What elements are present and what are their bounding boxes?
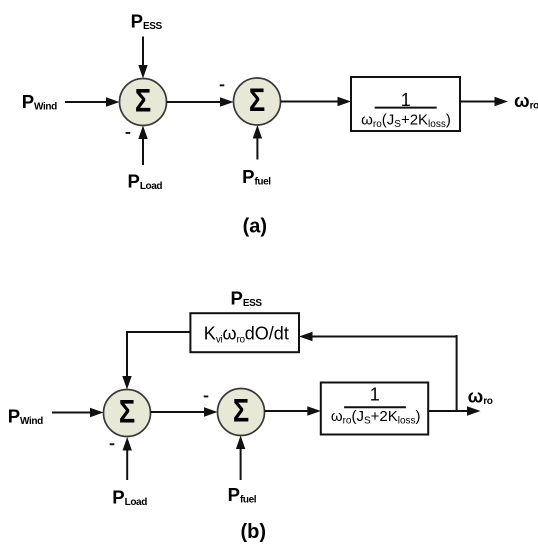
wire transfer block to output <box>460 97 508 106</box>
minus sign at S1b lower input <box>110 443 115 445</box>
svg-text:ωro: ωro <box>514 90 538 112</box>
svg-text:1: 1 <box>370 384 380 404</box>
caption (b) <box>241 521 267 543</box>
label P_Load (diagram a) <box>128 171 163 193</box>
wire feedback corner into K block (horizontal, arrow left) <box>299 332 457 341</box>
label P_ESS (diagram b) <box>231 288 263 310</box>
svg-text:Σ: Σ <box>233 393 249 429</box>
wire summer S2b to transfer block b <box>265 406 321 415</box>
label P_ESS (diagram a) <box>131 10 163 32</box>
wire output node up to feedback corner (vertical) <box>456 335 458 411</box>
label P_Wind (diagram a) <box>22 91 57 113</box>
label P_fuel (diagram b) <box>228 484 257 506</box>
wire summer S2 to transfer block <box>281 97 352 106</box>
wire P_fuel up into summer S2b <box>236 436 245 481</box>
label P_Wind (diagram b) <box>8 406 43 428</box>
svg-text:PESS: PESS <box>131 10 163 32</box>
svg-text:(a): (a) <box>243 215 267 237</box>
wire K block output to corner (horizontal) <box>126 331 190 333</box>
summing junction S1 <box>120 79 167 126</box>
transfer function block 1/(wro(Js+2Kloss)) diagram a <box>351 77 460 131</box>
svg-text:Pfuel: Pfuel <box>242 166 271 188</box>
minus sign at S2 left input <box>220 84 225 86</box>
wire P_Load up into summer S1b <box>123 437 132 480</box>
svg-text:(b): (b) <box>241 521 267 543</box>
wire P_Wind into summer S1b <box>52 408 104 417</box>
svg-text:Σ: Σ <box>249 83 265 119</box>
wire P_Load up into summer S1 <box>138 126 147 166</box>
summing junction S2 <box>234 78 281 125</box>
wire summer S1b to summer S2b <box>151 407 218 416</box>
svg-text:PLoad: PLoad <box>112 487 147 509</box>
svg-text:Σ: Σ <box>135 83 151 119</box>
block Kvi*wro*dO/dt (ESS controller) <box>190 313 299 352</box>
minus sign at S2b left input <box>204 396 209 398</box>
svg-text:PWind: PWind <box>8 406 43 428</box>
wire P_fuel up into summer S2 <box>253 125 262 160</box>
caption (a) <box>243 215 267 237</box>
label P_Load (diagram b) <box>112 487 147 509</box>
label omega_ro output (diagram b) <box>468 386 493 408</box>
label P_fuel (diagram a) <box>242 166 271 188</box>
svg-text:PWind: PWind <box>22 91 57 113</box>
svg-text:ωro: ωro <box>468 386 493 408</box>
minus sign at S1 lower input <box>126 132 131 134</box>
wire transfer block b to output <box>428 406 480 415</box>
wire P_ESS down into summer S1 <box>138 37 147 79</box>
transfer function block 1/(wro(Js+2Kloss)) diagram b <box>321 383 428 435</box>
summing junction S1b <box>104 390 151 437</box>
svg-text:PLoad: PLoad <box>128 171 163 193</box>
wire P_Wind into summer S1 <box>65 97 120 106</box>
label omega_ro output (diagram a) <box>514 90 538 112</box>
svg-text:PESS: PESS <box>231 288 263 310</box>
svg-text:Pfuel: Pfuel <box>228 484 257 506</box>
summing junction S2b <box>218 389 265 436</box>
wire summer S1 to summer S2 <box>167 97 234 106</box>
svg-text:Σ: Σ <box>119 394 135 430</box>
wire corner down into summer S1b <box>122 331 131 390</box>
